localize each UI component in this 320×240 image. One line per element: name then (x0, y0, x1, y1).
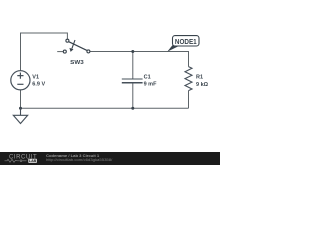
node flag NODE1 pointer (167, 45, 178, 52)
voltage source V1 (11, 71, 30, 90)
capacitor C1 (122, 79, 143, 83)
wire left rail top: V1 top to top-left corner to switch (21, 33, 68, 71)
node junction dot bottom (cap/rail) (131, 107, 134, 110)
svg-text:SW3: SW3 (70, 60, 84, 66)
svg-text:9 kΩ: 9 kΩ (196, 82, 209, 88)
resistor R1 (185, 67, 192, 91)
svg-text:NODE1: NODE1 (175, 37, 197, 46)
wire V1 bottom to ground junction (20, 90, 22, 108)
wire resistor bottom (188, 91, 190, 109)
svg-text:R1: R1 (196, 74, 203, 80)
wire bottom rail (21, 107, 189, 109)
node flag NODE1 box (173, 36, 200, 46)
wire switch pole to right corner to resistor top (90, 52, 189, 67)
footer logo LAB box (28, 159, 37, 163)
svg-text:http://circuitlab.com/c6d3gka5: http://circuitlab.com/c6d3gka55358/ (46, 158, 113, 162)
svg-text:C1: C1 (144, 75, 151, 81)
wire capacitor bottom branch (132, 83, 134, 109)
svg-text:LAB: LAB (29, 159, 37, 163)
footer logo zigzag (5, 159, 20, 162)
node junction dot ground (19, 107, 22, 110)
ground (13, 108, 27, 123)
switch SW3 (63, 39, 90, 53)
wire capacitor top branch (132, 52, 134, 79)
footer bar (0, 152, 220, 165)
svg-text:9 mF: 9 mF (144, 81, 157, 87)
svg-text:6.9 V: 6.9 V (32, 82, 45, 88)
svg-text:Codename / Lab 3 Circuit 1: Codename / Lab 3 Circuit 1 (46, 154, 99, 158)
wire stub unconnected throw (57, 51, 63, 53)
svg-text:V1: V1 (32, 75, 39, 81)
node junction dot top (cap/wire) (131, 50, 134, 53)
